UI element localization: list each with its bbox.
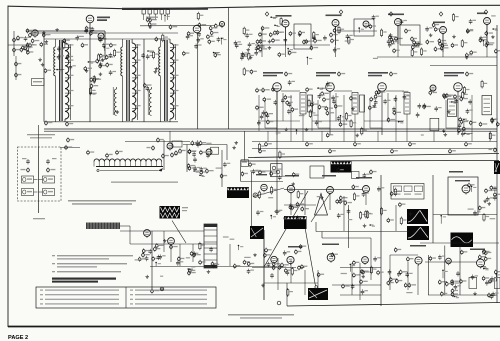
wire vert drop x390 <box>389 255 391 290</box>
wire sound det drop 2 <box>226 145 228 161</box>
resistor R81 <box>381 29 383 38</box>
resistor e4 <box>485 31 493 36</box>
node N45 <box>147 50 153 52</box>
label vert osc <box>288 246 302 248</box>
channel selector wiper <box>97 168 163 172</box>
wire IF plate drop 2 <box>227 8 229 129</box>
wire audio drop <box>151 231 153 291</box>
wire IF screen drop x277 <box>282 93 284 121</box>
capacitor Cb2 <box>306 142 313 147</box>
wire IF stage link 1 <box>281 90 300 92</box>
resistor R232 <box>490 185 497 190</box>
capacitor C120 <box>491 117 498 122</box>
resistor R310 <box>142 248 149 253</box>
resistor R32 <box>197 12 199 21</box>
wire IF can tie 1 <box>302 114 304 142</box>
ground G169 <box>305 128 309 131</box>
wire right bus <box>496 25 498 303</box>
tube V23 <box>332 20 339 29</box>
wire sound takeoff <box>183 144 227 146</box>
resistor R309 <box>233 264 240 269</box>
node N30 <box>164 15 170 22</box>
capacitor C171 <box>315 120 319 125</box>
resistor c1 <box>446 93 454 98</box>
wire audio drop x164 <box>163 231 165 252</box>
decoupling resistor Rb1 <box>267 131 269 141</box>
label V8 stage <box>444 72 464 74</box>
resistor R207 <box>367 210 369 219</box>
resistor R178 <box>200 170 207 175</box>
ground G139 <box>447 110 451 113</box>
wire top bus right <box>377 56 497 58</box>
wire left edge drop <box>13 31 15 56</box>
capacitor C253 <box>361 289 365 294</box>
test point TP267 <box>265 12 269 16</box>
resistor Cm5 <box>336 199 344 204</box>
capacitor C151 <box>288 80 292 85</box>
capacitor Ch5 <box>198 22 206 27</box>
resistor Cj4 <box>413 40 421 45</box>
resistor R2 <box>66 54 73 59</box>
wire vert drop A <box>263 230 265 300</box>
resistor Ct5 <box>42 32 50 37</box>
wire V27 leads <box>486 25 488 44</box>
resistor c2 <box>454 94 462 99</box>
resistor R111 <box>110 43 117 48</box>
capacitor Ck1 <box>259 47 267 52</box>
wire V8 cathode drop <box>457 91 459 135</box>
wire IF screen drop x330 <box>335 93 337 121</box>
resistor R186 <box>270 171 277 176</box>
capacitor C195 <box>193 166 197 171</box>
test point TP341 <box>339 10 343 14</box>
capacitor Ce3 <box>418 103 422 108</box>
resistor R94 <box>256 39 263 44</box>
resistor Cj1 <box>414 42 422 47</box>
resistor d3 <box>459 117 467 122</box>
ground G321 <box>145 275 149 278</box>
svg-text:PAGE 2: PAGE 2 <box>8 335 28 341</box>
ground G148 <box>351 107 355 110</box>
capacitor C201 <box>303 39 309 44</box>
resistor R262 <box>484 250 491 255</box>
wire audio drop x230 <box>229 244 231 266</box>
ground G116 <box>154 70 158 73</box>
wire V4 cathode drop <box>276 91 278 135</box>
resistor R68 <box>411 48 413 57</box>
capacitor C41 <box>234 41 238 46</box>
shield box top 3 <box>400 25 420 45</box>
capacitor d3 <box>392 107 396 112</box>
wire V5 cathode drop <box>329 91 331 135</box>
wire plate drop x335.5 <box>335 27 337 58</box>
resistor R25 <box>155 37 162 42</box>
ground G277 <box>253 253 257 256</box>
capacitor C174 <box>434 106 438 111</box>
tube V21 <box>219 21 224 28</box>
label value 56 <box>345 40 350 41</box>
capacitor Cq1 <box>408 283 416 288</box>
matching coil L32 <box>22 189 38 196</box>
capacitor Co2 <box>278 265 286 270</box>
capacitor C82 <box>333 47 337 52</box>
capacitor Cn2 <box>493 187 497 192</box>
capacitor Cc3 <box>391 149 398 154</box>
tube V26 <box>440 27 447 36</box>
resistor d1 <box>339 122 347 127</box>
capacitor c3 <box>454 99 458 104</box>
tube V29 <box>261 184 267 192</box>
capacitor Cr4 <box>451 279 459 284</box>
resistor R46 <box>214 53 221 58</box>
ground G142 <box>373 104 377 107</box>
capacitor C204 <box>362 192 366 197</box>
transformer T3 link winding <box>148 87 151 115</box>
capacitor d2 <box>394 97 398 102</box>
wire phono lead <box>120 225 130 227</box>
resistor R299 <box>483 249 490 254</box>
wire sync drop A <box>276 91 278 215</box>
resistor R323 <box>99 63 106 68</box>
node N146 <box>463 119 469 127</box>
wire tower bottom tie <box>44 121 178 123</box>
wire IF agc drop x277 <box>258 95 260 131</box>
integrator pack box <box>391 184 424 200</box>
label V25 <box>388 14 404 16</box>
test point V8 <box>466 71 474 76</box>
label W1 amplitude <box>182 207 188 208</box>
resistor R37 <box>162 34 164 43</box>
capacitor Co3 <box>286 270 290 275</box>
ground G134 <box>442 129 446 132</box>
resistor Ci2 <box>288 50 296 55</box>
node N259 <box>483 268 489 271</box>
capacitor C248 <box>405 272 409 277</box>
wire tower feed 3 <box>143 39 145 122</box>
ground G192 <box>232 146 236 149</box>
wire V22 leads <box>285 27 287 46</box>
capacitor Cv4 <box>99 62 103 67</box>
wire plate drop x285.5 <box>285 27 287 57</box>
ground G162 <box>284 128 288 131</box>
wire audio bus 1 <box>120 230 204 232</box>
capacitor C308 <box>158 254 162 259</box>
test point TP441 <box>439 12 443 16</box>
ground G211 <box>320 196 324 199</box>
resistor R228 <box>387 218 394 223</box>
wire top link <box>140 25 215 27</box>
node N287 <box>350 264 356 272</box>
resistor R220 <box>390 191 397 196</box>
resistor Co4 <box>272 262 280 267</box>
capacitor Cz3 <box>15 61 22 66</box>
resistor Cv3 <box>96 59 104 64</box>
resistor R31 <box>187 31 194 36</box>
capacitor d4 <box>334 104 342 109</box>
resistor R115 <box>93 75 95 84</box>
wire sync route corner 2 <box>322 237 371 239</box>
waveform photo W9 flyback pulse <box>451 233 474 248</box>
capacitor Cd2 <box>196 140 200 145</box>
capacitor Cd5 <box>192 152 196 157</box>
tube V51 <box>168 238 175 246</box>
ground G217 <box>291 182 295 185</box>
resistor R80 <box>434 27 441 32</box>
test point V4 <box>285 71 293 76</box>
capacitor Cg1 <box>461 131 465 136</box>
resistor R60 <box>289 31 296 36</box>
resistor d2 <box>460 96 468 101</box>
capacitor Cj5 <box>426 39 434 44</box>
wire diagonal to sync amp <box>253 188 284 197</box>
capacitor e3 <box>395 36 403 41</box>
resistor Cl1 <box>289 205 297 210</box>
resistor d1 <box>460 119 468 124</box>
resistor Cq3 <box>399 270 407 275</box>
test point V5 <box>338 71 346 76</box>
node N255 <box>453 296 459 299</box>
resistor R264 <box>387 280 394 285</box>
wire top stage link 2 <box>338 30 377 32</box>
node N329 <box>187 268 193 271</box>
resistor R257 <box>370 266 372 275</box>
wire B+ bus upper <box>44 128 497 130</box>
capacitor C43 <box>179 148 186 153</box>
capacitor Cc4 <box>449 149 456 154</box>
discriminator transformer box <box>271 164 282 177</box>
waveform photo W6 vert drive <box>250 226 264 239</box>
capacitor Cf4 <box>262 110 266 115</box>
transformer T2 core <box>127 40 129 121</box>
matching coil L30 <box>22 176 38 183</box>
resistor R247 <box>451 292 458 297</box>
resistor Cr1 <box>451 281 459 286</box>
capacitor C230 <box>363 173 367 178</box>
decoupling resistor Rb3 <box>377 131 379 141</box>
node N24 <box>104 46 110 51</box>
transformer T1 secondary winding <box>65 39 74 122</box>
capacitor C290 <box>490 276 494 281</box>
wire audio bus 2 <box>130 243 217 245</box>
resistor e1 <box>331 38 339 43</box>
resistor Ct2 <box>31 38 39 43</box>
quad coil box <box>241 160 249 167</box>
resistor R333 <box>243 260 250 265</box>
resistor R52 <box>280 17 282 26</box>
label value 317 <box>186 257 190 258</box>
phono jack J1 <box>253 193 257 197</box>
wire plate drop x487 <box>486 25 488 58</box>
resistor R181 <box>249 162 256 167</box>
capacitor d3 <box>337 116 341 121</box>
label V4 stage <box>263 72 283 74</box>
wire V26 leads <box>442 34 444 53</box>
resistor R86 <box>313 31 315 40</box>
capacitor Cu6 <box>99 37 103 42</box>
wire sync drop x396 <box>395 205 397 231</box>
wire w10 feed <box>315 286 318 289</box>
label value 194 <box>206 143 211 144</box>
capacitor C26 <box>217 37 221 42</box>
wire IF stage link 2 <box>334 90 352 92</box>
wire vert row link <box>252 267 296 269</box>
ground G332 <box>207 270 211 273</box>
resistor R73 <box>420 47 422 56</box>
waveform photo W3 edge <box>494 161 500 174</box>
resistor R150 <box>272 87 279 92</box>
capacitor C35 <box>194 44 198 49</box>
capacitor Cb4 <box>409 142 416 147</box>
resistor Cq2 <box>389 277 397 282</box>
capacitor C285 <box>438 255 442 260</box>
wire IF link bus 2 <box>312 120 352 122</box>
transformer T3 primary winding <box>159 39 161 122</box>
resistor R27 <box>207 34 214 39</box>
capacitor Cd3 <box>196 142 200 147</box>
resistor R15 <box>29 33 36 38</box>
resistor R165 <box>361 127 363 136</box>
capacitor C59 <box>425 27 429 32</box>
decoupling resistor Rb4 <box>433 131 435 141</box>
resistor R108 <box>495 49 500 54</box>
ground G159 <box>355 134 359 137</box>
resistor c3 <box>375 90 383 95</box>
resistor R50 <box>157 137 164 142</box>
channel selector commutator bar <box>96 166 163 168</box>
resistor R84 <box>465 53 472 58</box>
label value 302 <box>230 239 235 240</box>
ground G215 <box>283 216 287 219</box>
resistor R213 <box>353 192 355 201</box>
node N147 <box>464 133 473 136</box>
capacitor C198 <box>337 213 341 218</box>
node N237 <box>471 186 477 192</box>
capacitor Cl2 <box>289 203 293 208</box>
capacitor Cx1 <box>90 77 98 82</box>
resistor Cd4 <box>191 141 199 146</box>
node N22 <box>88 61 96 63</box>
capacitor Ce2 <box>423 103 427 108</box>
resistor Co6 <box>272 265 280 270</box>
capacitor C6 <box>57 46 61 51</box>
volume control bar R75 <box>86 223 120 230</box>
capacitor Ch1 <box>197 32 201 37</box>
capacitor Cn3 <box>493 195 497 200</box>
node N244 <box>481 266 487 269</box>
tube V6 <box>378 83 387 93</box>
resistor R60 <box>206 168 214 173</box>
wire IF stage link 3 <box>386 90 404 92</box>
resistor Cj3 <box>411 45 419 50</box>
ground G88 <box>246 48 250 51</box>
node N39 <box>213 52 220 55</box>
node N83 <box>287 48 293 55</box>
capacitor Cu3 <box>91 27 95 32</box>
capacitor C18 <box>69 64 73 69</box>
wire divider drop <box>243 131 245 160</box>
resistor R314 <box>188 268 195 273</box>
capacitor C268 <box>283 250 287 255</box>
resistor Cg4 <box>458 128 466 133</box>
capacitor Cx3 <box>84 66 92 71</box>
resistor R135 <box>469 120 476 125</box>
IF transformer can T6 <box>352 93 358 115</box>
resistor Ce4 <box>429 90 437 95</box>
capacitor C292 <box>485 280 489 285</box>
resistor R252 <box>298 265 305 270</box>
capacitor C305 <box>209 247 213 252</box>
resistor R297 <box>460 250 467 255</box>
test point circle TP21 <box>277 301 281 305</box>
wire audio drop x180 <box>179 244 181 266</box>
resistor Cr3 <box>438 280 446 285</box>
wire IF screen drop x382 <box>387 93 389 121</box>
capacitor C242 <box>486 197 490 202</box>
capacitor C29 <box>235 43 239 48</box>
label V5 stage <box>316 72 336 74</box>
resistor R106 <box>461 39 463 48</box>
tube V43B <box>446 258 452 265</box>
wire vert drop x291 <box>290 260 292 283</box>
resistor R187 <box>220 173 227 178</box>
capacitor C92 <box>248 42 252 47</box>
test point circle TP20 <box>160 287 164 291</box>
capacitor Cb5 <box>465 142 472 147</box>
resistor R132 <box>462 91 464 100</box>
resistor Ck4 <box>257 45 265 50</box>
resistor R214 <box>394 188 396 197</box>
resistor R12 <box>27 44 29 53</box>
resistor R32 <box>47 167 56 172</box>
resistor R130 <box>291 107 298 112</box>
capacitor C101 <box>469 19 473 24</box>
resistor R191 <box>259 170 266 175</box>
wire sound det feed <box>169 131 171 143</box>
trimmer C41 <box>106 153 113 158</box>
wire diagonal to vert output <box>305 228 316 287</box>
wire left edge chain <box>15 56 17 80</box>
wire sync drop x330 <box>329 194 331 210</box>
capacitor C212 <box>377 186 381 191</box>
wire B+ left stub <box>125 141 190 143</box>
ground G16 <box>38 58 42 61</box>
resistor R209 <box>258 191 260 200</box>
label channel selector caption <box>111 182 178 183</box>
resistor R225 <box>399 202 406 207</box>
resistor c4 <box>368 105 376 110</box>
wire vert drop B <box>380 175 382 306</box>
resistor R57 <box>369 24 376 29</box>
resistor R141 <box>345 112 347 121</box>
capacitor C10 <box>102 43 106 48</box>
antenna network shield box <box>18 147 62 201</box>
resistor R144 <box>350 119 352 128</box>
wire IF agc drop x330 <box>311 95 313 131</box>
ground G95 <box>249 56 253 59</box>
capacitor C202 <box>411 36 417 41</box>
resistor e4 <box>272 38 280 43</box>
wire vert drop x408 <box>407 262 409 290</box>
IF transformer can T8 <box>448 99 457 117</box>
label value 1 <box>78 36 84 37</box>
electrolytic C90 <box>151 288 160 293</box>
peaking coil can L12 <box>430 118 439 130</box>
capacitor Cb3 <box>354 142 361 147</box>
resistor R276 <box>295 249 302 254</box>
transformer T1 primary winding <box>54 39 56 122</box>
capacitor C28 <box>197 37 201 42</box>
ground G13 <box>55 28 59 31</box>
